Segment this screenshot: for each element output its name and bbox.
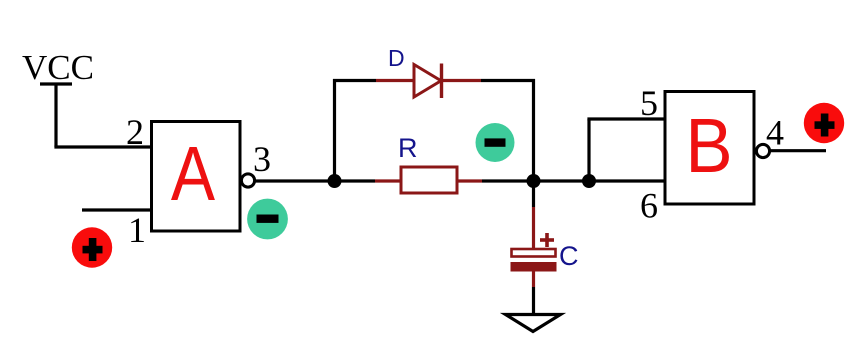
wire capacitor top black <box>532 181 535 207</box>
wire top left segment <box>333 79 376 82</box>
wire resistor right lead <box>457 179 482 182</box>
svg-text:R: R <box>398 133 418 163</box>
wire pin 6 horizontal <box>589 179 665 182</box>
wire top right segment <box>481 79 535 82</box>
wire right riser <box>532 79 535 181</box>
svg-text:4: 4 <box>766 113 784 153</box>
svg-text:A: A <box>171 131 215 217</box>
capacitor C bottom plate <box>511 262 557 272</box>
wire pin 5 riser <box>587 119 590 181</box>
gate U-A body <box>152 122 241 232</box>
svg-text:6: 6 <box>640 186 658 226</box>
wire resistor left lead <box>375 179 401 182</box>
wire diode cathode lead <box>442 79 482 82</box>
svg-text:D: D <box>388 45 405 71</box>
svg-text:5: 5 <box>640 83 658 123</box>
svg-text:C: C <box>559 241 579 271</box>
wire pin 3 to node <box>255 179 336 182</box>
capacitor C top plate <box>512 249 556 257</box>
diode D triangle <box>414 65 441 98</box>
node junction right <box>582 174 596 188</box>
gate U-B body <box>665 92 754 205</box>
svg-text:B: B <box>685 102 732 188</box>
wire capacitor top lead <box>532 207 535 249</box>
capacitor polarity plus <box>540 233 554 247</box>
wire VCC vertical <box>54 84 57 147</box>
wire resistor to node black <box>482 179 534 182</box>
probe plus near pin 4 <box>804 103 844 143</box>
node junction capacitor <box>527 174 541 188</box>
wire diode anode lead <box>376 79 414 82</box>
svg-text:2: 2 <box>126 112 144 152</box>
wire pin 4 output <box>770 149 826 152</box>
wire pin 1 horizontal <box>82 208 151 211</box>
wire pin 5 horizontal <box>587 117 665 120</box>
wire node to node <box>534 179 590 182</box>
svg-text:3: 3 <box>253 139 271 179</box>
diode D cathode bar <box>440 64 443 99</box>
inverter bubble pin 4 <box>756 144 769 157</box>
svg-text:1: 1 <box>128 210 146 250</box>
wire to ground black <box>532 287 535 315</box>
resistor R body <box>401 167 457 193</box>
probe plus near pin 1 <box>72 227 112 267</box>
ground symbol <box>506 315 561 332</box>
wire node to resistor black <box>335 179 376 182</box>
svg-text:VCC: VCC <box>22 48 94 87</box>
inverter bubble pin 3 <box>241 174 254 187</box>
probe minus near gate A <box>247 199 288 240</box>
wire pin 2 horizontal <box>54 145 151 148</box>
power symbol VCC bar <box>40 82 72 85</box>
node junction left <box>328 174 342 188</box>
wire left riser <box>333 79 336 181</box>
wire capacitor bottom lead <box>532 272 535 288</box>
probe minus near R <box>476 123 515 162</box>
